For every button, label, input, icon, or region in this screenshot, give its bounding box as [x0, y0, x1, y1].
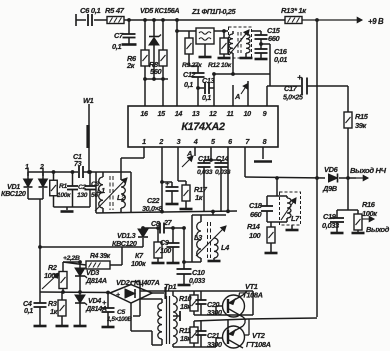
svg-text:100к: 100к [362, 209, 378, 218]
svg-text:0,01: 0,01 [274, 55, 287, 64]
svg-text:660: 660 [268, 34, 281, 43]
svg-text:39к: 39к [355, 121, 368, 130]
svg-text:С11: С11 [198, 154, 210, 163]
svg-text:R1: R1 [59, 183, 67, 190]
svg-text:С12: С12 [183, 70, 196, 79]
svg-text:L4: L4 [221, 243, 229, 252]
svg-text:1,5×100В: 1,5×100В [107, 316, 132, 323]
svg-text:Выход: Выход [366, 225, 390, 234]
svg-text:660: 660 [250, 210, 263, 219]
svg-text:2: 2 [39, 164, 44, 171]
svg-text:30,0×8: 30,0×8 [142, 204, 162, 213]
svg-text:R15: R15 [355, 112, 369, 121]
svg-text:18к: 18к [180, 302, 191, 311]
svg-text:L7: L7 [291, 214, 300, 223]
svg-text:R14: R14 [247, 222, 260, 231]
svg-text:100к: 100к [131, 259, 146, 268]
svg-text:R12 10к: R12 10к [208, 62, 232, 69]
svg-text:VD6: VD6 [324, 165, 339, 174]
svg-text:100: 100 [249, 231, 262, 240]
svg-text:+: + [116, 292, 120, 299]
svg-text:+: + [297, 72, 302, 82]
svg-text:0,033: 0,033 [322, 221, 340, 230]
svg-text:W1: W1 [83, 96, 94, 105]
svg-text:11: 11 [227, 109, 234, 118]
svg-text:1: 1 [25, 164, 29, 171]
svg-text:0,1: 0,1 [202, 93, 211, 102]
svg-text:Z1 ФП1П-0,25: Z1 ФП1П-0,25 [191, 7, 237, 16]
svg-text:8: 8 [263, 137, 267, 146]
svg-text:10: 10 [244, 109, 252, 118]
svg-text:С7: С7 [114, 31, 124, 40]
svg-text:4: 4 [193, 137, 198, 146]
svg-text:L2: L2 [117, 193, 126, 202]
svg-text:2: 2 [158, 137, 163, 146]
svg-text:12: 12 [209, 109, 217, 118]
svg-text:27: 27 [163, 218, 173, 227]
svg-text:3300: 3300 [207, 308, 222, 317]
svg-text:3: 3 [177, 137, 181, 146]
svg-text:100к: 100к [44, 271, 59, 280]
svg-text:Выход НЧ: Выход НЧ [350, 166, 387, 175]
svg-text:С21: С21 [207, 331, 220, 340]
svg-text:0,1: 0,1 [112, 42, 121, 51]
svg-text:18к: 18к [180, 334, 191, 343]
svg-text:L3: L3 [194, 233, 203, 242]
svg-text:14: 14 [175, 109, 183, 118]
svg-text:С2: С2 [78, 184, 86, 191]
svg-text:Д814А: Д814А [85, 276, 107, 285]
svg-text:К174ХА2: К174ХА2 [181, 121, 225, 133]
svg-text:VD2: VD2 [116, 278, 131, 287]
svg-text:9: 9 [263, 109, 267, 118]
svg-text:ГТ108А: ГТ108А [246, 340, 271, 349]
svg-text:1к: 1к [50, 307, 58, 316]
svg-text:Д9В: Д9В [322, 184, 338, 193]
svg-text:С19: С19 [323, 212, 337, 221]
svg-text:С6 0,1: С6 0,1 [80, 6, 100, 15]
svg-text:0,1: 0,1 [184, 80, 193, 89]
svg-text:ГТ108А: ГТ108А [238, 291, 263, 300]
svg-text:R16: R16 [362, 200, 376, 209]
svg-text:С14: С14 [216, 154, 229, 163]
svg-text:VT2: VT2 [252, 331, 266, 340]
svg-text:100: 100 [160, 246, 171, 255]
svg-text:+9 В: +9 В [368, 17, 384, 26]
svg-text:С17: С17 [284, 84, 298, 93]
svg-text:100к: 100к [57, 192, 71, 199]
svg-text:+2,2В: +2,2В [63, 255, 80, 262]
svg-text:0,1: 0,1 [24, 306, 33, 315]
svg-text:R9 27к: R9 27к [182, 62, 202, 69]
svg-text:А: А [234, 92, 240, 101]
svg-text:0,033: 0,033 [189, 278, 205, 285]
svg-text:С18: С18 [249, 201, 263, 210]
svg-text:А: А [186, 149, 192, 158]
svg-text:0,033: 0,033 [197, 169, 213, 176]
svg-text:Тр1: Тр1 [164, 282, 176, 291]
svg-text:R4 39к: R4 39к [90, 253, 111, 260]
svg-text:КЦ407А: КЦ407А [134, 278, 160, 287]
svg-text:КВС120: КВС120 [1, 189, 26, 198]
svg-text:С10: С10 [192, 268, 206, 277]
svg-text:560: 560 [150, 67, 163, 76]
svg-text:С13: С13 [202, 76, 215, 85]
svg-text:С5: С5 [117, 309, 126, 316]
svg-text:VD5 КС156А: VD5 КС156А [140, 6, 179, 15]
svg-text:L1: L1 [97, 186, 105, 195]
svg-text:R13* 1к: R13* 1к [281, 6, 307, 15]
svg-text:1: 1 [142, 137, 146, 146]
svg-text:R5 47: R5 47 [105, 6, 125, 15]
svg-text:73: 73 [74, 159, 82, 168]
svg-text:130: 130 [77, 192, 88, 199]
svg-text:13: 13 [192, 109, 200, 118]
svg-text:3300: 3300 [207, 340, 222, 349]
svg-text:5,0×25: 5,0×25 [283, 95, 303, 102]
